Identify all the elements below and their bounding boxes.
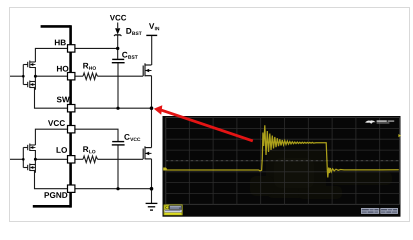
wire VCC pin to CVCC	[68, 129, 119, 141]
wire SW node to Q2 drain	[151, 108, 153, 147]
pin box HB	[68, 45, 75, 52]
wire Q1 source to SW node	[151, 76, 153, 109]
wire LO pin to RLO	[75, 158, 83, 160]
wire driver1 output to HO pin	[35, 75, 68, 77]
junction dot Q2 source-PGND	[150, 187, 154, 191]
wire driver2 input	[10, 158, 23, 160]
wire VIN to Q1 drain	[151, 35, 153, 65]
wire HB pin to driver top drain	[35, 48, 67, 62]
wire CBST top lead	[117, 48, 119, 59]
wire CVCC bottom lead to PGND	[117, 145, 119, 189]
wire PGND pin to Q2 source	[75, 188, 152, 190]
label RLO	[83, 146, 95, 153]
oscilloscope panel	[163, 116, 401, 217]
wire driver2 output to LO pin	[35, 158, 68, 160]
label PGND	[45, 192, 68, 198]
wire Q2 source to PGND row	[151, 159, 153, 189]
junction dot SW node	[150, 106, 154, 110]
label VCC pin	[48, 120, 65, 126]
wire driver1 input	[10, 75, 23, 77]
label CVCC	[124, 134, 140, 141]
label CBST	[122, 52, 138, 59]
wire RHO to Q1 gate	[98, 75, 144, 77]
diode DBST (schottky)	[115, 28, 120, 34]
trigger level dashed line	[166, 160, 400, 162]
pin box PGND	[68, 185, 75, 192]
wire driver1 source to SW pin	[35, 88, 68, 109]
pin box VCC	[68, 126, 75, 133]
junction dot bootstrap node	[116, 47, 119, 50]
wire HB pin to bootstrap node	[68, 47, 118, 49]
junction dot CBST-SW	[116, 107, 119, 110]
label HO	[57, 66, 68, 72]
driver U1B totem pole (low side)	[23, 144, 35, 173]
wire VCC pin to driver2 top drain	[35, 129, 67, 145]
capacitor CBST	[112, 59, 125, 62]
pin box LO	[68, 156, 75, 163]
faint persistence noise	[250, 150, 392, 199]
IC outline thick bottom segment	[33, 205, 71, 208]
resistor RLO	[83, 156, 98, 163]
label SW	[57, 97, 70, 103]
driver U1B junction dots	[22, 158, 25, 161]
pin box HO	[68, 73, 75, 80]
channel C1 descriptor box	[164, 205, 182, 215]
label VCC supply	[110, 15, 126, 21]
label HB	[55, 40, 66, 46]
driver U1A totem pole (high side)	[23, 61, 35, 90]
graticule frame	[166, 118, 400, 205]
wire PGND to ground	[151, 189, 153, 203]
driver U1A body arrows	[30, 63, 33, 66]
label DBST	[126, 28, 141, 35]
VIN supply terminal	[146, 34, 157, 36]
trigger level marker right edge	[398, 134, 401, 137]
ground symbol	[146, 203, 158, 210]
capacitor CVCC	[112, 142, 125, 145]
trigger info box	[380, 208, 398, 214]
graticule horizontal grid lines	[166, 128, 400, 193]
wire VCC supply to diode	[117, 23, 119, 29]
IC outline thick vertical bus	[69, 25, 72, 207]
label LO	[57, 147, 67, 153]
pin box SW	[68, 105, 75, 112]
wire HO pin to RHO	[75, 75, 83, 77]
driver U1B body arrows	[30, 146, 33, 149]
resistor RHO	[83, 73, 98, 80]
wire CBST bottom lead to SW	[117, 63, 119, 108]
IC outline thick top segment	[41, 25, 71, 28]
transistor Q1 (high-side MOSFET)	[143, 63, 151, 76]
driver U1A junction dots	[22, 75, 25, 78]
wire RLO to Q2 gate	[98, 158, 144, 160]
waveform trace C1	[166, 125, 399, 177]
junction dot CVCC-PGND	[116, 187, 119, 190]
Teledyne LeCroy logo	[365, 120, 376, 123]
timebase info box	[361, 208, 379, 214]
red annotation arrow	[161, 110, 253, 141]
wire SW pin to SW node	[75, 107, 152, 109]
channel 1 level marker left edge	[163, 168, 167, 171]
transistor Q2 (low-side MOSFET)	[143, 146, 151, 159]
wire DBST cathode to bootstrap node	[117, 36, 119, 49]
graticule vertical grid lines	[189, 118, 379, 205]
wire driver2 source to PGND pin	[35, 171, 68, 189]
label VIN	[149, 23, 159, 30]
label RHO	[83, 63, 96, 70]
